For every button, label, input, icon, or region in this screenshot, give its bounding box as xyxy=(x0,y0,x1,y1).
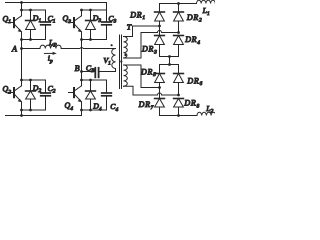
junction dots xyxy=(20,1,180,117)
svg-text:B: B xyxy=(75,64,80,73)
diode DR1 xyxy=(155,4,165,27)
wire rectifier bottom DC rail xyxy=(160,115,198,117)
wire D2-C2 bottom branch xyxy=(22,109,46,111)
transformer secondary winding 2 xyxy=(124,65,128,86)
diode D3 xyxy=(86,10,96,40)
wire node B to Cb xyxy=(82,71,95,73)
wire leg2 Q3 emitter to node B crossing A-line xyxy=(81,32,83,72)
wire Lp to primary with hop over leg2 xyxy=(61,47,115,48)
diode DR3 xyxy=(155,36,165,57)
inductor L1 xyxy=(197,0,216,3)
diode DR7 xyxy=(155,99,165,116)
wire center link between bridges xyxy=(169,57,171,65)
transistor Q4 xyxy=(69,86,82,102)
transistor Q3 xyxy=(69,16,82,32)
wire secondary1 bottom lead to right AC node with hop xyxy=(124,31,179,59)
wire bottom bridge DC plus line xyxy=(160,64,179,66)
inductor Lp xyxy=(40,45,61,48)
wire top bridge DC minus line xyxy=(160,56,179,58)
transistor Q2 xyxy=(9,86,22,102)
wire leg1 Q1 emitter to node A xyxy=(21,32,23,49)
wire leg1 node A to Q2 collector xyxy=(21,49,23,86)
capacitor C3 xyxy=(102,22,112,40)
wire secondary2 bottom lead to lower-right AC node with hop xyxy=(124,86,179,95)
secondary 2 polarity dot xyxy=(120,60,122,62)
diode D1 xyxy=(26,10,36,40)
inductor L2 xyxy=(197,112,216,115)
secondary 1 polarity dot xyxy=(124,54,126,56)
diode D4 xyxy=(86,80,96,110)
current arrow ip xyxy=(44,52,56,55)
node B xyxy=(80,70,83,73)
transformer core xyxy=(120,35,122,89)
transformer secondary winding 1 xyxy=(124,37,128,59)
svg-text:A: A xyxy=(11,45,17,54)
diode DR5 xyxy=(155,65,165,88)
primary polarity dot xyxy=(111,44,113,46)
wire rail corner down to C3 xyxy=(106,3,108,22)
diode DR4 xyxy=(174,36,184,57)
wire node A to Lp xyxy=(22,48,41,50)
wire D4-C4 top branch xyxy=(82,79,107,81)
wire DR1 anode to DR3 cathode xyxy=(159,26,161,36)
svg-text:T: T xyxy=(127,22,132,31)
wire leg2 node B to Q4 collector xyxy=(81,72,83,86)
capacitor Cb xyxy=(95,68,98,78)
capacitor C1 xyxy=(41,10,51,40)
diode DR2 xyxy=(174,4,184,33)
wire DR5 anode to DR7 cathode with hop crossing xyxy=(159,88,161,99)
wire leg2 Q4 emitter to bottom rail xyxy=(81,102,83,116)
diode D2 xyxy=(26,80,36,110)
wire D2-C2 top branch xyxy=(22,79,46,81)
wire leg2 Q3 collector xyxy=(81,10,83,16)
capacitor C4 xyxy=(102,80,112,110)
wire leg1 rail to Q1 collector xyxy=(21,3,23,16)
wire top rail xyxy=(6,2,107,4)
diode DR8 xyxy=(174,99,184,116)
wire rectifier top DC rail xyxy=(160,3,197,5)
wire secondary1 top lead to left AC node xyxy=(124,26,160,37)
wire bottom rail xyxy=(6,115,82,117)
transformer T primary winding xyxy=(112,49,116,72)
node A xyxy=(20,47,23,50)
wire D3-C3 bottom branch xyxy=(82,39,107,41)
wire leg1 Q2 emitter to bottom rail xyxy=(21,102,23,116)
wire secondary2 top lead to lower-left AC node xyxy=(124,65,160,88)
wire D1-C1 bottom branch xyxy=(22,39,46,41)
capacitor C2 xyxy=(41,80,51,110)
wire D1-C1 top branch xyxy=(22,9,46,11)
transistor Q1 xyxy=(9,16,22,32)
diode DR6 xyxy=(174,65,184,96)
wire D4-C4 bottom branch xyxy=(82,109,107,111)
wire Cb to primary bottom xyxy=(99,71,115,73)
wire D3-C3 top branch xyxy=(82,9,107,11)
